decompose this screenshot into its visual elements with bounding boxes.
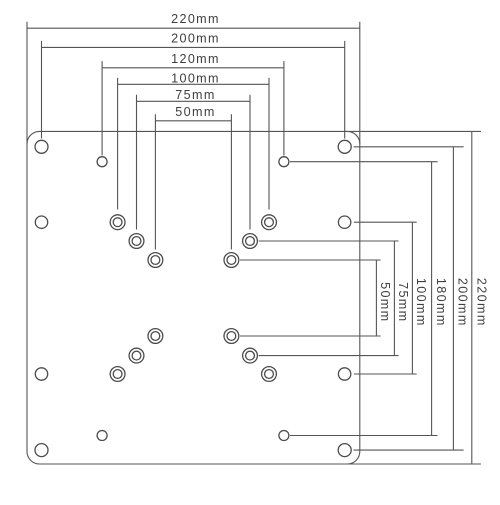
dimension 100mm right: bottom connector from edge hole bbox=[354, 373, 417, 375]
dimension 75mm right: vertical line bbox=[393, 241, 395, 356]
svg-text:200mm: 200mm bbox=[171, 32, 220, 46]
dimension 100mm top: line with end drops to VESA100 holes bbox=[118, 78, 269, 210]
dimension 220mm right: bottom connector (plate bottom edge extended) bbox=[345, 463, 481, 465]
VESA75 hole top-right (double ring) bbox=[243, 234, 258, 249]
VESA100 hole top-right (double ring) bbox=[262, 215, 277, 230]
edge hole left lower bbox=[35, 368, 47, 380]
edge hole left upper bbox=[35, 216, 47, 228]
VESA100 hole top-left (double ring) bbox=[110, 215, 125, 230]
edge hole right lower bbox=[338, 368, 350, 380]
dimension 75mm right: top connector from hole bbox=[259, 240, 399, 242]
svg-text:220mm: 220mm bbox=[171, 12, 220, 26]
dimension 50mm right: vertical line bbox=[375, 260, 377, 336]
VESA75 hole bottom-right (double ring) bbox=[243, 348, 258, 363]
dimension 200mm right: top connector from corner hole bbox=[354, 146, 464, 148]
svg-text:220mm: 220mm bbox=[474, 278, 488, 327]
small hole bottom-left bbox=[97, 431, 107, 441]
dimension 50mm right: bottom connector from hole bbox=[240, 335, 381, 337]
small hole top-left (120mm) bbox=[97, 157, 107, 167]
VESA50 hole top-left (double ring) bbox=[148, 253, 163, 268]
edge hole right upper bbox=[338, 216, 350, 228]
small hole top-right (120mm) bbox=[279, 157, 289, 167]
svg-text:180mm: 180mm bbox=[434, 278, 448, 327]
dimension 200mm top: line with end drops to corner holes bbox=[42, 41, 345, 139]
dimension 75mm right: bottom connector from hole bbox=[259, 355, 399, 357]
svg-text:100mm: 100mm bbox=[171, 71, 220, 85]
dimension 180mm right: top connector from small hole bbox=[290, 161, 438, 163]
svg-text:50mm: 50mm bbox=[378, 282, 392, 322]
svg-text:75mm: 75mm bbox=[396, 282, 410, 322]
svg-text:75mm: 75mm bbox=[175, 88, 215, 102]
VESA75 hole bottom-left (double ring) bbox=[129, 348, 144, 363]
dimension 220mm top: line bbox=[27, 22, 360, 29]
corner hole bottom-left bbox=[35, 444, 48, 457]
dimension 100mm right: top connector from edge hole bbox=[354, 221, 417, 223]
dimension 50mm top: line with end drops to VESA50 holes bbox=[155, 114, 231, 249]
svg-text:120mm: 120mm bbox=[171, 52, 220, 66]
dimension 120mm top: line with end drops to small holes bbox=[102, 61, 284, 155]
VESA100 hole bottom-left (double ring) bbox=[110, 367, 125, 382]
dimension 50mm right: top connector from hole bbox=[240, 259, 381, 261]
corner hole top-left bbox=[35, 140, 48, 153]
dimension 180mm right: vertical line bbox=[431, 162, 433, 436]
svg-text:200mm: 200mm bbox=[455, 278, 469, 327]
corner hole top-right bbox=[338, 140, 351, 153]
VESA50 hole bottom-right (double ring) bbox=[224, 329, 239, 344]
svg-text:50mm: 50mm bbox=[175, 105, 215, 119]
dimension 180mm right: bottom connector from small hole bbox=[290, 435, 438, 437]
dimension 100mm right: vertical line bbox=[411, 222, 413, 374]
plate outline (220x220mm adapter plate, rounded corners) bbox=[27, 131, 360, 464]
dimension 220mm right: top connector (plate top edge extended) bbox=[345, 130, 481, 132]
dimension 220mm top: left extension to plate edge bbox=[26, 28, 28, 144]
VESA100 hole bottom-right (double ring) bbox=[262, 367, 277, 382]
dimension 220mm right: vertical line bbox=[471, 131, 473, 464]
VESA75 hole top-left (double ring) bbox=[129, 234, 144, 249]
dimension 200mm right: bottom connector from corner hole bbox=[354, 449, 464, 451]
corner hole bottom-right bbox=[338, 444, 351, 457]
VESA50 hole top-right (double ring) bbox=[224, 253, 239, 268]
small hole bottom-right bbox=[279, 431, 289, 441]
dimension 200mm right: vertical line bbox=[452, 147, 454, 450]
svg-text:100mm: 100mm bbox=[414, 278, 428, 327]
dimension 220mm top: right extension to plate edge bbox=[359, 28, 361, 144]
dimension 75mm top: line with end drops to VESA75 holes bbox=[137, 95, 251, 230]
VESA50 hole bottom-left (double ring) bbox=[148, 329, 163, 344]
